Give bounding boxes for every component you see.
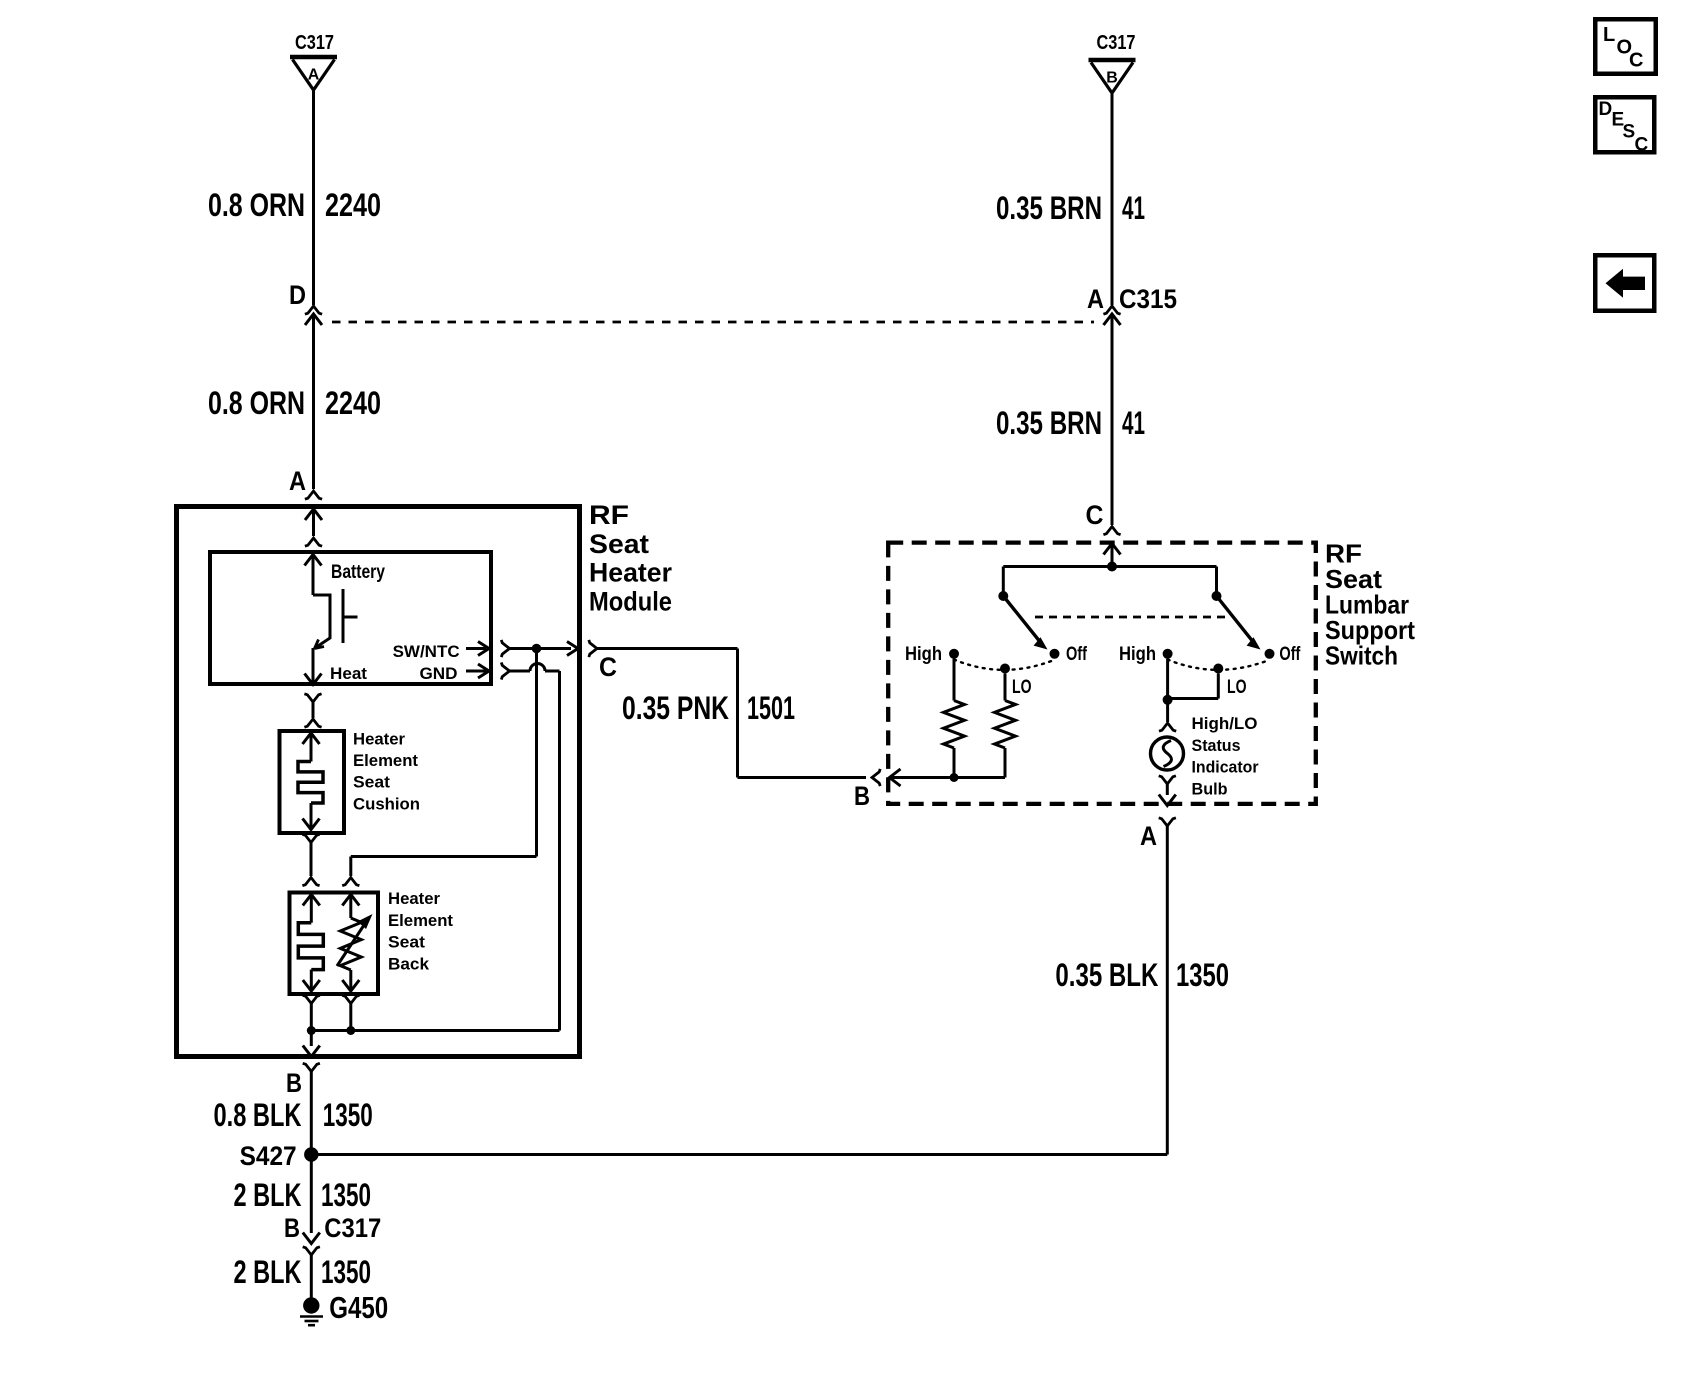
svg-text:Heater: Heater [388,889,440,908]
svg-text:Status: Status [1192,736,1241,755]
svg-text:C: C [1086,500,1104,530]
svg-text:41: 41 [1122,190,1145,226]
svg-text:C317: C317 [1097,32,1136,54]
svg-text:B: B [1106,70,1118,87]
svg-text:Off: Off [1279,644,1301,665]
svg-text:L: L [1603,24,1615,46]
svg-text:Module: Module [589,586,672,616]
svg-text:C317: C317 [295,32,334,54]
svg-text:Switch: Switch [1325,641,1398,671]
svg-text:Indicator: Indicator [1192,758,1259,777]
svg-text:S: S [1623,122,1636,143]
svg-text:0.8 BLK: 0.8 BLK [214,1097,302,1133]
svg-text:Back: Back [388,954,430,973]
svg-text:C: C [599,652,617,682]
svg-text:C317: C317 [324,1213,381,1243]
svg-text:2240: 2240 [325,385,381,421]
svg-text:1350: 1350 [1176,957,1229,993]
svg-text:0.8 ORN: 0.8 ORN [208,187,305,223]
svg-text:Seat: Seat [589,529,649,559]
svg-text:Off: Off [1066,644,1088,665]
svg-text:0.35 BRN: 0.35 BRN [996,405,1102,441]
svg-text:2 BLK: 2 BLK [234,1254,302,1290]
svg-text:A: A [1087,284,1104,314]
svg-text:1350: 1350 [323,1097,373,1133]
svg-text:C: C [1629,50,1643,72]
svg-text:B: B [284,1213,300,1243]
svg-text:0.8 ORN: 0.8 ORN [208,385,305,421]
svg-text:GND: GND [420,664,458,683]
svg-text:Heater: Heater [589,558,672,588]
svg-text:0.35 BLK: 0.35 BLK [1055,957,1158,993]
svg-text:0.35 PNK: 0.35 PNK [622,690,729,726]
svg-text:Bulb: Bulb [1192,779,1228,798]
svg-text:Cushion: Cushion [353,794,420,813]
svg-text:1501: 1501 [747,690,795,726]
svg-text:1350: 1350 [321,1254,371,1290]
svg-text:LO: LO [1227,677,1247,698]
svg-text:1350: 1350 [321,1177,371,1213]
svg-text:A: A [308,67,320,84]
svg-text:LO: LO [1012,677,1032,698]
svg-text:Heater: Heater [353,730,405,749]
svg-text:41: 41 [1122,405,1145,441]
svg-text:A: A [1140,821,1157,851]
svg-text:B: B [286,1068,302,1098]
svg-text:G450: G450 [329,1290,388,1325]
svg-text:Battery: Battery [331,562,385,583]
svg-text:S427: S427 [240,1141,297,1171]
svg-text:Heat: Heat [330,664,367,683]
svg-text:0.35 BRN: 0.35 BRN [996,190,1102,226]
svg-text:Element: Element [353,751,418,770]
svg-text:High/LO: High/LO [1192,714,1258,733]
svg-text:Seat: Seat [353,773,390,792]
svg-text:D: D [1599,99,1613,120]
svg-text:C315: C315 [1119,284,1177,314]
svg-text:2 BLK: 2 BLK [234,1177,302,1213]
svg-text:High: High [1119,644,1156,665]
svg-text:SW/NTC: SW/NTC [393,642,460,661]
svg-text:Element: Element [388,911,453,930]
svg-text:High: High [905,644,942,665]
svg-text:2240: 2240 [325,187,381,223]
svg-text:C: C [1635,135,1649,156]
svg-text:Seat: Seat [388,933,425,952]
svg-text:D: D [289,280,306,310]
svg-text:A: A [289,466,306,496]
svg-text:B: B [854,781,870,811]
svg-text:RF: RF [589,500,629,530]
